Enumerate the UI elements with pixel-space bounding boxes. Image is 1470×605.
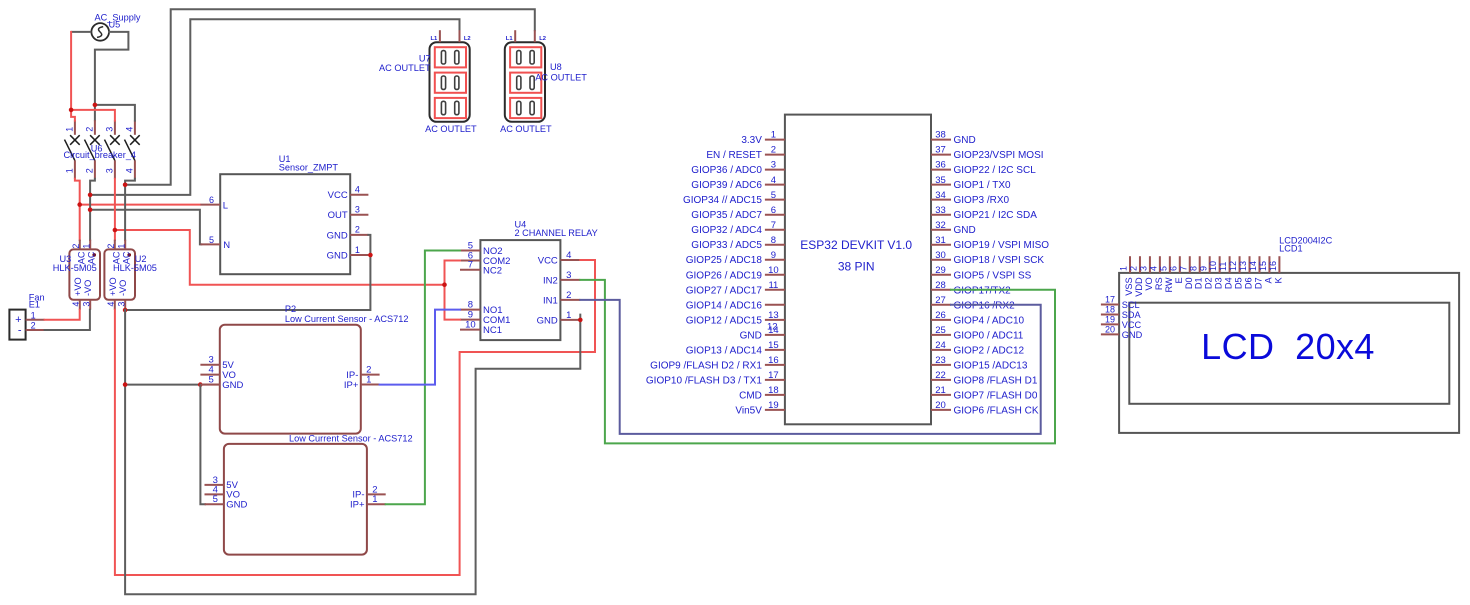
svg-text:L2: L2: [464, 36, 471, 42]
svg-text:29: 29: [935, 265, 946, 276]
svg-text:GIOP34 // ADC15: GIOP34 // ADC15: [683, 195, 762, 206]
svg-text:IN1: IN1: [543, 295, 558, 306]
svg-text:1: 1: [771, 130, 776, 141]
svg-text:26: 26: [935, 310, 946, 321]
svg-text:D0: D0: [1184, 277, 1194, 289]
svg-text:5: 5: [213, 494, 218, 505]
label U8: [550, 62, 562, 72]
svg-text:-: -: [18, 324, 22, 336]
AC outlet U7: [430, 30, 471, 122]
svg-text:17: 17: [768, 370, 779, 381]
svg-text:GIOP32 / ADC4: GIOP32 / ADC4: [691, 225, 762, 236]
svg-text:19: 19: [1105, 314, 1115, 324]
svg-text:GIOP5 / VSPI SS: GIOP5 / VSPI SS: [954, 270, 1032, 281]
svg-text:GIOP18 / VSPI SCK: GIOP18 / VSPI SCK: [954, 255, 1045, 266]
svg-text:2: 2: [85, 127, 95, 132]
svg-text:15: 15: [1258, 261, 1268, 271]
svg-text:EN / RESET: EN / RESET: [706, 150, 762, 161]
svg-text:24: 24: [935, 340, 946, 351]
svg-text:D5: D5: [1234, 277, 1244, 289]
svg-text:U5: U5: [109, 20, 121, 30]
microcontroller ESP32 DEVKIT: [646, 115, 1049, 425]
svg-text:35: 35: [935, 175, 946, 186]
svg-text:22: 22: [935, 370, 946, 381]
svg-text:GIOP27 / ADC17: GIOP27 / ADC17: [686, 285, 763, 296]
svg-text:2: 2: [106, 244, 116, 249]
svg-text:14: 14: [1248, 261, 1258, 271]
wire breaker4 bottom to U2 AC2: [125, 179, 135, 240]
svg-text:U7: U7: [419, 54, 431, 64]
svg-text:GIOP35 / ADC7: GIOP35 / ADC7: [691, 210, 762, 221]
svg-text:11: 11: [1218, 262, 1228, 271]
svg-text:GIOP0 / ADC11: GIOP0 / ADC11: [954, 330, 1024, 341]
wire fan minus: [45, 310, 90, 330]
svg-text:L1: L1: [506, 36, 514, 42]
svg-text:GND: GND: [954, 225, 976, 236]
label U7: [419, 54, 431, 64]
svg-text:36: 36: [935, 160, 946, 171]
svg-text:2: 2: [771, 145, 776, 156]
label Circuit_breaker_4: [64, 150, 137, 160]
svg-text:VDD: VDD: [1134, 277, 1144, 297]
svg-text:P2: P2: [285, 304, 296, 314]
svg-text:GIOP2 / ADC12: GIOP2 / ADC12: [954, 345, 1025, 356]
svg-text:7: 7: [468, 260, 473, 271]
svg-text:CMD: CMD: [739, 390, 762, 401]
wire GND to sensors: [125, 384, 200, 386]
AC-DC module U3 HLK-5M05: [69, 240, 100, 310]
label 2 CHANNEL RELAY: [515, 228, 598, 238]
svg-text:Low Current Sensor - ACS712: Low Current Sensor - ACS712: [285, 314, 409, 324]
junction breaker3 node: [113, 228, 118, 233]
circuit breaker U6 pole 3: [105, 120, 120, 179]
svg-text:IP+: IP+: [344, 380, 359, 391]
label U7 AC OUTLET bottom: [425, 124, 477, 134]
wire AC supply right to breaker2 top: [95, 32, 128, 120]
junction N node: [88, 207, 93, 212]
svg-text:31: 31: [935, 235, 946, 246]
junction relay GND pin: [578, 318, 583, 323]
svg-text:16: 16: [768, 355, 779, 366]
svg-text:VCC: VCC: [1122, 320, 1142, 330]
svg-text:4: 4: [125, 168, 135, 173]
svg-text:+VO: +VO: [108, 277, 118, 296]
label U2: [135, 254, 147, 264]
svg-text:2: 2: [31, 321, 36, 331]
label ESP32 DEVKIT V1.0: [800, 238, 912, 252]
svg-text:GIOP36 / ADC0: GIOP36 / ADC0: [691, 165, 762, 176]
svg-text:13: 13: [768, 310, 779, 321]
wire relay IN2 to GIOP17: [580, 280, 1055, 444]
wire sensor1 GND stubwire: [200, 384, 220, 386]
wire relay NO1 to sensor1 IP+: [380, 310, 460, 385]
LCD display LCD1: [1101, 256, 1459, 433]
junction U2 -VO node: [123, 308, 128, 313]
wire relay VCC 5V net: [115, 260, 595, 575]
svg-text:1: 1: [566, 310, 571, 321]
wire breaker2 bottom to U3 AC2: [90, 179, 95, 240]
junction relay COM: [442, 282, 447, 287]
svg-text:-VO: -VO: [83, 280, 93, 296]
svg-text:12: 12: [1228, 261, 1238, 271]
svg-text:8: 8: [1188, 266, 1198, 271]
svg-text:GND: GND: [226, 500, 247, 511]
svg-text:GIOP10 /FLASH D3 / TX1: GIOP10 /FLASH D3 / TX1: [646, 375, 762, 386]
svg-text:3: 3: [117, 302, 127, 307]
svg-text:ESP32 DEVKIT V1.0: ESP32 DEVKIT V1.0: [800, 238, 912, 252]
svg-text:GIOP39 / ADC6: GIOP39 / ADC6: [691, 180, 762, 191]
label LCD1: [1279, 244, 1303, 254]
svg-text:3: 3: [771, 160, 776, 171]
wire relay COM rail: [445, 261, 461, 320]
junction ZMPT GND1: [368, 253, 373, 258]
svg-text:GIOP33 / ADC5: GIOP33 / ADC5: [691, 240, 762, 251]
svg-text:LCD1: LCD1: [1279, 244, 1303, 254]
label P2: [285, 304, 296, 314]
AC outlet U8: [505, 30, 546, 122]
svg-text:18: 18: [768, 385, 779, 396]
label U8 AC OUTLET bottom: [500, 124, 552, 134]
svg-text:1: 1: [31, 310, 36, 320]
junction GND sensors A: [123, 382, 128, 387]
svg-text:2: 2: [85, 168, 95, 173]
junction L node: [77, 202, 82, 207]
svg-text:34: 34: [935, 190, 946, 201]
svg-text:21: 21: [935, 385, 946, 396]
svg-text:18: 18: [1105, 304, 1115, 314]
svg-text:3: 3: [105, 127, 115, 132]
svg-text:GIOP21 / I2C SDA: GIOP21 / I2C SDA: [954, 210, 1038, 221]
svg-text:5: 5: [209, 374, 214, 385]
circuit breaker U6 pole 4: [125, 120, 140, 179]
svg-text:4: 4: [566, 250, 571, 261]
svg-text:GND: GND: [1122, 330, 1143, 340]
svg-text:3: 3: [105, 168, 115, 173]
wire fan plus: [45, 310, 80, 320]
svg-text:30: 30: [935, 250, 946, 261]
svg-text:7: 7: [771, 220, 776, 231]
svg-text:1: 1: [82, 244, 92, 249]
svg-text:19: 19: [768, 400, 779, 411]
relay module U4: [460, 240, 580, 340]
wire breaker3 bottom to U2 AC: [114, 179, 116, 240]
svg-text:GIOP13 / ADC14: GIOP13 / ADC14: [686, 345, 763, 356]
svg-text:+VO: +VO: [73, 277, 83, 296]
svg-text:1: 1: [65, 168, 75, 173]
label U3 HLK-5M05: [53, 263, 97, 273]
svg-text:D1: D1: [1194, 277, 1204, 289]
svg-text:3.3V: 3.3V: [741, 135, 762, 146]
svg-text:GIOP4 / ADC10: GIOP4 / ADC10: [954, 315, 1025, 326]
svg-text:4: 4: [71, 302, 81, 307]
svg-text:1: 1: [366, 374, 371, 385]
wire net L to ZMPT: [80, 204, 201, 206]
svg-text:9: 9: [1198, 266, 1208, 271]
svg-text:GIOP3 /RX0: GIOP3 /RX0: [954, 195, 1010, 206]
svg-text:9: 9: [771, 250, 776, 261]
junction GND sensors B: [198, 382, 203, 387]
label U6: [91, 144, 103, 154]
svg-text:SCL: SCL: [1122, 300, 1140, 310]
svg-text:L1: L1: [431, 36, 439, 42]
svg-text:RW: RW: [1164, 277, 1174, 292]
label Sensor_ZMPT: [279, 163, 339, 173]
svg-text:VSS: VSS: [1124, 277, 1134, 295]
svg-text:13: 13: [1238, 261, 1248, 271]
svg-text:8: 8: [771, 235, 776, 246]
svg-text:GIOP8 /FLASH D1: GIOP8 /FLASH D1: [954, 375, 1038, 386]
svg-text:OUT: OUT: [328, 210, 348, 221]
svg-text:GND: GND: [222, 380, 243, 391]
svg-text:4: 4: [125, 127, 135, 132]
label Low Current Sensor 1: [285, 314, 409, 324]
svg-text:HLK-5M05: HLK-5M05: [53, 263, 97, 273]
svg-text:D2: D2: [1204, 277, 1214, 289]
svg-text:RS: RS: [1154, 277, 1164, 290]
svg-text:GIOP15 /ADC13: GIOP15 /ADC13: [954, 360, 1028, 371]
svg-text:17: 17: [1105, 294, 1115, 304]
svg-text:11: 11: [768, 280, 778, 291]
svg-text:5: 5: [209, 235, 214, 245]
svg-text:25: 25: [935, 325, 946, 336]
wire relay IN1 to GIOP16: [580, 300, 1040, 434]
circuit breaker U6 pole 1: [65, 120, 80, 179]
wire ZMPT GND to U2 -VO: [125, 235, 370, 310]
svg-text:20: 20: [1105, 324, 1115, 334]
wire breaker1-breaker3 top link: [71, 110, 115, 121]
svg-text:-VO: -VO: [118, 280, 128, 296]
svg-text:3: 3: [355, 205, 360, 215]
svg-text:GIOP6 /FLASH CK: GIOP6 /FLASH CK: [954, 405, 1039, 416]
svg-text:GIOP1 / TX0: GIOP1 / TX0: [954, 180, 1011, 191]
svg-text:GIOP19 / VSPI MISO: GIOP19 / VSPI MISO: [954, 240, 1050, 251]
svg-text:Low Current Sensor - ACS712: Low Current Sensor - ACS712: [289, 433, 413, 443]
svg-text:1: 1: [65, 127, 75, 132]
svg-text:GND: GND: [537, 315, 558, 326]
svg-text:E: E: [1174, 277, 1184, 283]
svg-text:15: 15: [768, 340, 779, 351]
svg-text:D7: D7: [1253, 277, 1263, 289]
current sensor ACS712 #2: [205, 444, 386, 555]
svg-text:IP+: IP+: [350, 500, 365, 511]
svg-text:VCC: VCC: [328, 190, 348, 201]
svg-text:GIOP12 / ADC15: GIOP12 / ADC15: [686, 315, 763, 326]
svg-text:2 CHANNEL RELAY: 2 CHANNEL RELAY: [515, 228, 598, 238]
label U7 AC OUTLET: [379, 63, 431, 73]
svg-text:Sensor_ZMPT: Sensor_ZMPT: [279, 163, 339, 173]
svg-text:10: 10: [1208, 261, 1218, 271]
svg-text:A: A: [1263, 277, 1273, 284]
svg-text:AC OUTLET: AC OUTLET: [500, 124, 552, 134]
junction outletA node: [88, 193, 93, 198]
svg-text:SDA: SDA: [1122, 310, 1142, 320]
svg-text:23: 23: [935, 355, 946, 366]
label U4: [515, 220, 527, 230]
svg-text:NC2: NC2: [483, 265, 502, 276]
label E1: [29, 299, 40, 309]
AC-DC module U2 HLK-5M05: [104, 240, 135, 310]
svg-text:1: 1: [355, 245, 360, 255]
label U2 HLK-5M05: [113, 263, 157, 273]
svg-text:GND: GND: [327, 250, 348, 261]
svg-text:28: 28: [935, 280, 946, 291]
svg-text:4: 4: [355, 185, 360, 195]
wire relay NO2 to sensor2 IP+: [386, 251, 460, 505]
voltage sensor U1 Sensor_ZMPT: [200, 174, 368, 274]
label LCD2004I2C: [1279, 236, 1332, 246]
svg-text:VO: VO: [1144, 277, 1154, 290]
junction breaker2 top: [93, 103, 98, 108]
svg-text:10: 10: [465, 320, 476, 331]
svg-text:10: 10: [768, 265, 779, 276]
wire L feed to breaker1: [70, 32, 72, 110]
svg-text:AC OUTLET: AC OUTLET: [425, 124, 477, 134]
svg-text:3: 3: [82, 302, 92, 307]
svg-text:GIOP22 / I2C SCL: GIOP22 / I2C SCL: [954, 165, 1037, 176]
wire GND to sensor2: [200, 385, 205, 505]
svg-text:33: 33: [935, 205, 946, 216]
svg-text:20: 20: [935, 400, 946, 411]
label LCD 20x4: [1201, 326, 1375, 367]
svg-text:12: 12: [767, 321, 778, 332]
svg-text:27: 27: [935, 295, 946, 306]
fan connector E1: [9, 310, 44, 340]
svg-text:6: 6: [771, 205, 776, 216]
svg-text:6: 6: [209, 195, 214, 205]
svg-text:GIOP7 /FLASH D0: GIOP7 /FLASH D0: [954, 390, 1038, 401]
wire outlet link B: [125, 9, 535, 185]
svg-text:37: 37: [935, 145, 946, 156]
label U8 AC OUTLET: [535, 73, 587, 83]
AC source U5: [91, 23, 109, 41]
svg-text:2: 2: [355, 225, 360, 235]
wire breaker1 top jog: [71, 110, 75, 121]
junction breaker1 top: [69, 108, 74, 113]
label U3: [60, 254, 72, 264]
svg-text:2: 2: [566, 290, 571, 301]
svg-text:HLK-5M05: HLK-5M05: [113, 263, 157, 273]
svg-text:AC OUTLET: AC OUTLET: [379, 63, 431, 73]
circuit breaker U6 pole 2: [85, 120, 100, 179]
svg-text:GIOP14 / ADC16: GIOP14 / ADC16: [686, 300, 763, 311]
wire AC supply left: [71, 31, 91, 33]
svg-text:1: 1: [117, 244, 127, 249]
svg-text:GIOP9 /FLASH D2 / RX1: GIOP9 /FLASH D2 / RX1: [650, 360, 762, 371]
label U5: [109, 20, 121, 30]
label 38 PIN: [838, 260, 875, 274]
svg-text:GND: GND: [327, 230, 348, 241]
svg-text:2: 2: [1129, 266, 1139, 271]
label AC_Supply: [95, 13, 141, 23]
label Fan: [29, 292, 45, 302]
svg-text:IN2: IN2: [543, 275, 558, 286]
wire net N to ZMPT: [90, 210, 201, 245]
svg-text:2: 2: [71, 244, 81, 249]
wire outlet link A: [90, 19, 459, 195]
svg-text:U8: U8: [550, 62, 562, 72]
svg-text:GIOP25 / ADC18: GIOP25 / ADC18: [686, 255, 763, 266]
svg-text:GIOP26 / ADC19: GIOP26 / ADC19: [686, 270, 763, 281]
svg-text:NC1: NC1: [483, 325, 502, 336]
svg-text:5: 5: [771, 190, 776, 201]
svg-text:L: L: [223, 200, 228, 211]
svg-text:GND: GND: [740, 330, 762, 341]
current sensor P2 ACS712 #1: [200, 325, 379, 434]
svg-text:N: N: [223, 240, 230, 251]
wire breaker4 top link: [95, 105, 135, 121]
svg-text:K: K: [1273, 277, 1283, 284]
svg-text:38 PIN: 38 PIN: [838, 260, 875, 274]
svg-text:GIOP23/VSPI MOSI: GIOP23/VSPI MOSI: [954, 150, 1044, 161]
svg-text:3: 3: [1139, 266, 1149, 271]
svg-text:16: 16: [1268, 261, 1278, 271]
svg-text:AC OUTLET: AC OUTLET: [535, 73, 587, 83]
svg-text:Circuit_breaker_4: Circuit_breaker_4: [64, 150, 137, 160]
svg-text:5: 5: [1158, 266, 1168, 271]
svg-text:LCD 20x4: LCD 20x4: [1201, 326, 1375, 367]
svg-text:4: 4: [771, 175, 776, 186]
svg-text:4: 4: [1148, 266, 1158, 271]
svg-text:VCC: VCC: [538, 256, 558, 267]
label Low Current Sensor 2: [289, 433, 413, 443]
svg-text:32: 32: [935, 220, 946, 231]
wire relay GND net: [125, 310, 580, 595]
svg-text:L2: L2: [539, 36, 546, 42]
svg-text:7: 7: [1178, 266, 1188, 271]
svg-text:D6: D6: [1244, 277, 1254, 289]
svg-text:E1: E1: [29, 299, 40, 309]
wire breaker1 bottom to U3 AC: [75, 179, 80, 240]
svg-text:38: 38: [935, 130, 946, 141]
svg-text:1: 1: [372, 494, 377, 505]
svg-text:4: 4: [106, 302, 116, 307]
junction outletB node: [123, 183, 128, 188]
svg-text:6: 6: [1168, 266, 1178, 271]
svg-text:D3: D3: [1214, 277, 1224, 289]
svg-text:1: 1: [1119, 266, 1129, 271]
wire N branch to relay COM: [115, 230, 445, 285]
svg-text:D4: D4: [1224, 277, 1234, 289]
svg-text:3: 3: [566, 270, 571, 281]
label U1: [279, 154, 291, 164]
svg-text:GND: GND: [954, 135, 976, 146]
svg-text:Vin5V: Vin5V: [735, 405, 762, 416]
